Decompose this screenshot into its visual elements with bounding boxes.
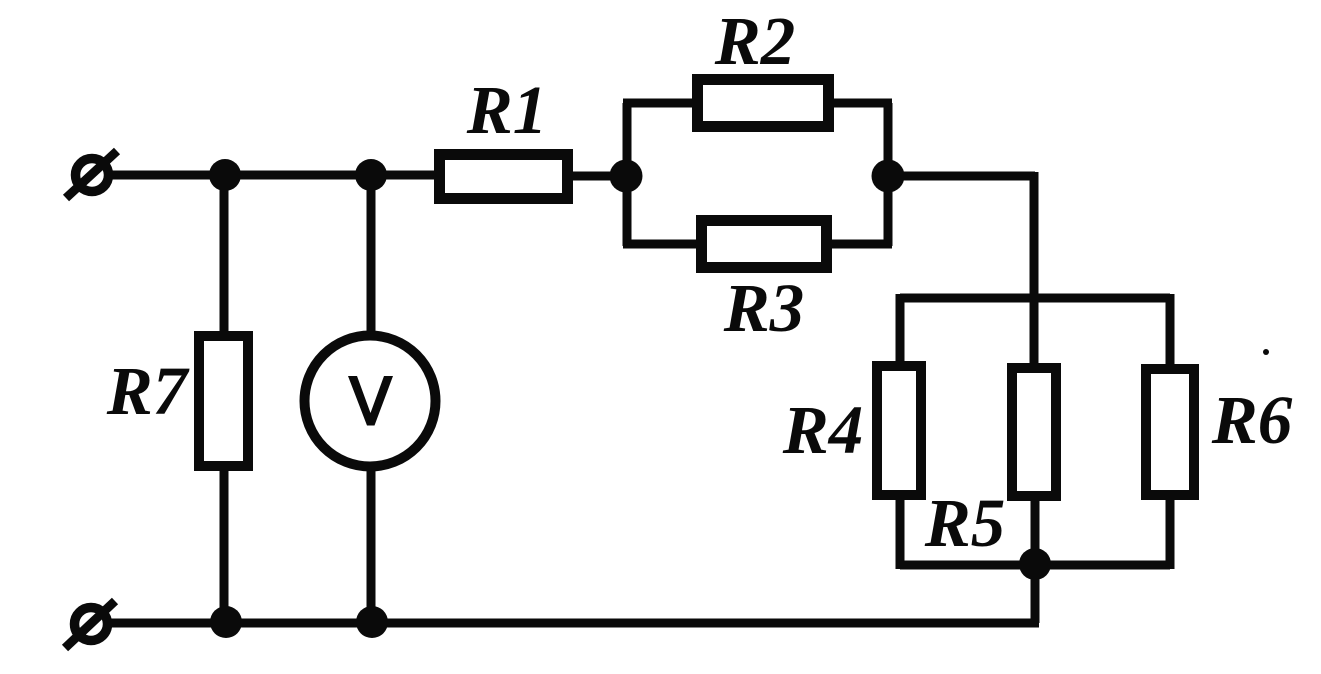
junction dot node E [1019, 548, 1051, 580]
svg-text:R5: R5 [924, 485, 1006, 561]
wire bottom rail [110, 619, 1039, 628]
resistor R6 [1146, 369, 1194, 495]
junction dot node A [209, 159, 241, 191]
wire R5 bottom to bus [1031, 501, 1040, 565]
wire bottom branch left to R3 [623, 240, 698, 249]
voltmeter V glyph [348, 376, 393, 426]
wire R4 bottom to bus [896, 500, 905, 569]
svg-text:R6: R6 [1211, 382, 1293, 458]
wire R7 to bottom rail [220, 461, 229, 622]
resistor R2 [698, 80, 829, 127]
speck artifact [1263, 349, 1269, 355]
wire node B down to voltmeter [367, 175, 376, 334]
wire vertical down to R5 [1030, 172, 1039, 363]
wire left vertical of parallel R2/R3 [623, 103, 632, 246]
wire top bus of R4 R5 R6 [900, 294, 1170, 303]
svg-text:R1: R1 [466, 72, 548, 148]
resistor R4 [877, 366, 921, 495]
resistor R7 [199, 336, 248, 466]
wire top branch to R2 [623, 99, 694, 108]
wire node A down to R7 [220, 175, 229, 341]
wire top horizontal from terminal to R1 [110, 171, 436, 180]
svg-text:R4: R4 [782, 392, 864, 468]
wire bus to R4 top [896, 294, 905, 363]
wire R3 to right vertical [832, 240, 892, 249]
wire R2 to right vertical [834, 99, 892, 108]
node D dot [872, 160, 905, 193]
wire node D to right column [888, 172, 1035, 181]
svg-text:R7: R7 [106, 353, 190, 429]
wire voltmeter to bottom rail [367, 468, 376, 622]
junction dot node B [355, 159, 387, 191]
node C dot [610, 160, 643, 193]
voltmeter U1 circle [305, 336, 436, 467]
wire bottom bus of R4 R5 R6 [900, 561, 1170, 570]
wire node E down to bottom rail [1031, 560, 1040, 623]
terminal bottom-left [65, 601, 115, 648]
junction dot node G [356, 606, 388, 638]
wire R6 bottom to bus [1166, 500, 1175, 569]
svg-text:R3: R3 [723, 270, 805, 346]
resistor R3 [702, 221, 827, 268]
wire right vertical of parallel R2/R3 [884, 103, 893, 246]
junction dot node F [210, 606, 242, 638]
wire bus to R6 top [1166, 294, 1175, 366]
terminal top-left [66, 151, 117, 198]
resistor R1 [440, 155, 568, 199]
svg-text:R2: R2 [714, 3, 796, 79]
resistor R5 [1012, 368, 1056, 496]
wire R1 to node C [573, 172, 630, 181]
